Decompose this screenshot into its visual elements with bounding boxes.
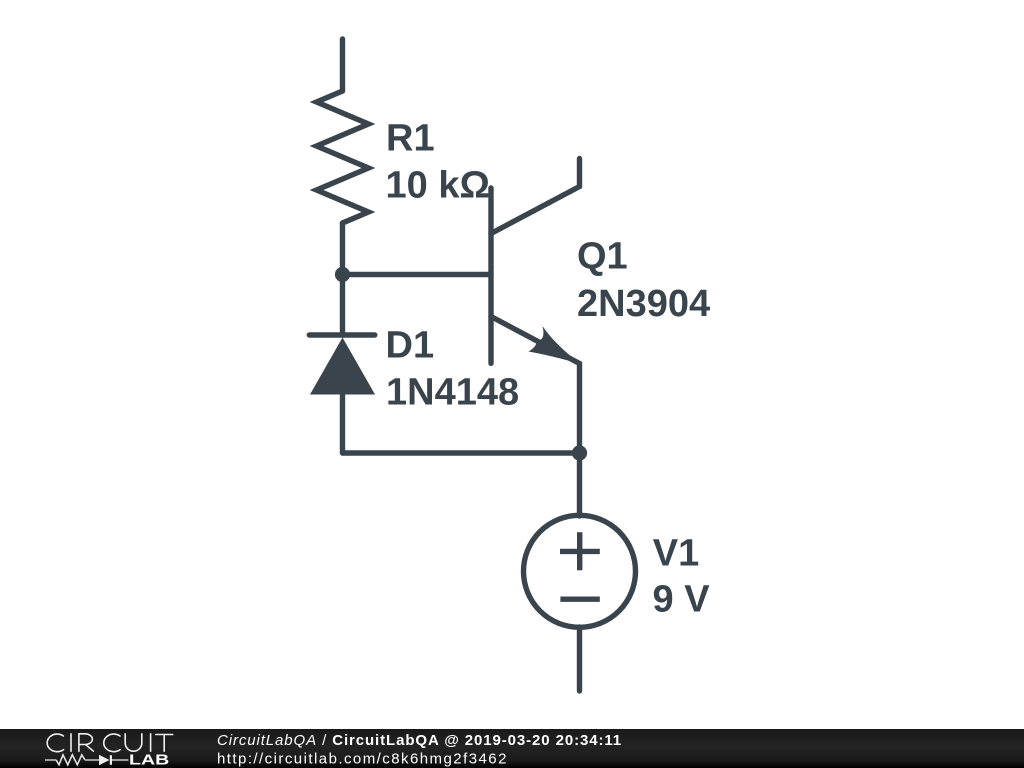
node A junction dot xyxy=(335,267,350,282)
wire top feed to R1 xyxy=(340,39,345,91)
V1 minus sign xyxy=(560,597,599,602)
transistor Q1 base bar xyxy=(488,188,493,363)
svg-text:D1: D1 xyxy=(386,325,435,367)
wire node to D1 cathode xyxy=(340,275,345,336)
svg-text:Q1: Q1 xyxy=(577,236,628,278)
voltage source V1 circle xyxy=(524,515,636,627)
Q1 emitter arrow xyxy=(529,326,581,364)
svg-text:2N3904: 2N3904 xyxy=(577,283,710,325)
svg-text:9 V: 9 V xyxy=(653,579,711,621)
svg-text:http://circuitlab.com/c8k6hmg2: http://circuitlab.com/c8k6hmg2f3462 xyxy=(217,751,508,768)
wire bottom horizontal xyxy=(343,450,580,455)
svg-text:R1: R1 xyxy=(386,118,435,160)
wire R1 bottom to node xyxy=(340,223,345,275)
V1 plus sign xyxy=(560,532,600,570)
svg-text:1N4148: 1N4148 xyxy=(386,372,519,414)
footer bar xyxy=(0,729,1024,768)
diode D1 triangle xyxy=(310,338,375,395)
wire V1 bottom xyxy=(577,627,582,691)
CircuitLab logo squiggle resistor xyxy=(45,759,56,761)
svg-text:10 kΩ: 10 kΩ xyxy=(386,165,490,207)
node B junction dot xyxy=(572,445,587,460)
Q1 collector stub xyxy=(491,159,580,234)
wire D1 anode down xyxy=(340,394,345,453)
diode D1 cathode bar xyxy=(309,332,375,337)
resistor R1 xyxy=(317,91,369,223)
svg-text:CircuitLabQA / CircuitLabQA @: CircuitLabQA / CircuitLabQA @ 2019-03-20… xyxy=(217,732,622,749)
CircuitLab logo squiggle diode xyxy=(99,755,110,765)
Q1 emitter diagonal xyxy=(491,317,580,454)
CircuitLab logo CIRCUIT lineart xyxy=(47,734,173,752)
svg-text:LAB: LAB xyxy=(129,752,169,768)
wire node B to V1 xyxy=(577,453,582,516)
wire base: node to Q1 base xyxy=(343,272,492,277)
svg-text:V1: V1 xyxy=(653,533,699,575)
